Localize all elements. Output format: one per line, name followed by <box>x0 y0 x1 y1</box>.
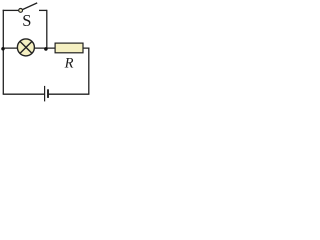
svg-text:S: S <box>22 11 31 30</box>
svg-text:R: R <box>64 56 74 72</box>
